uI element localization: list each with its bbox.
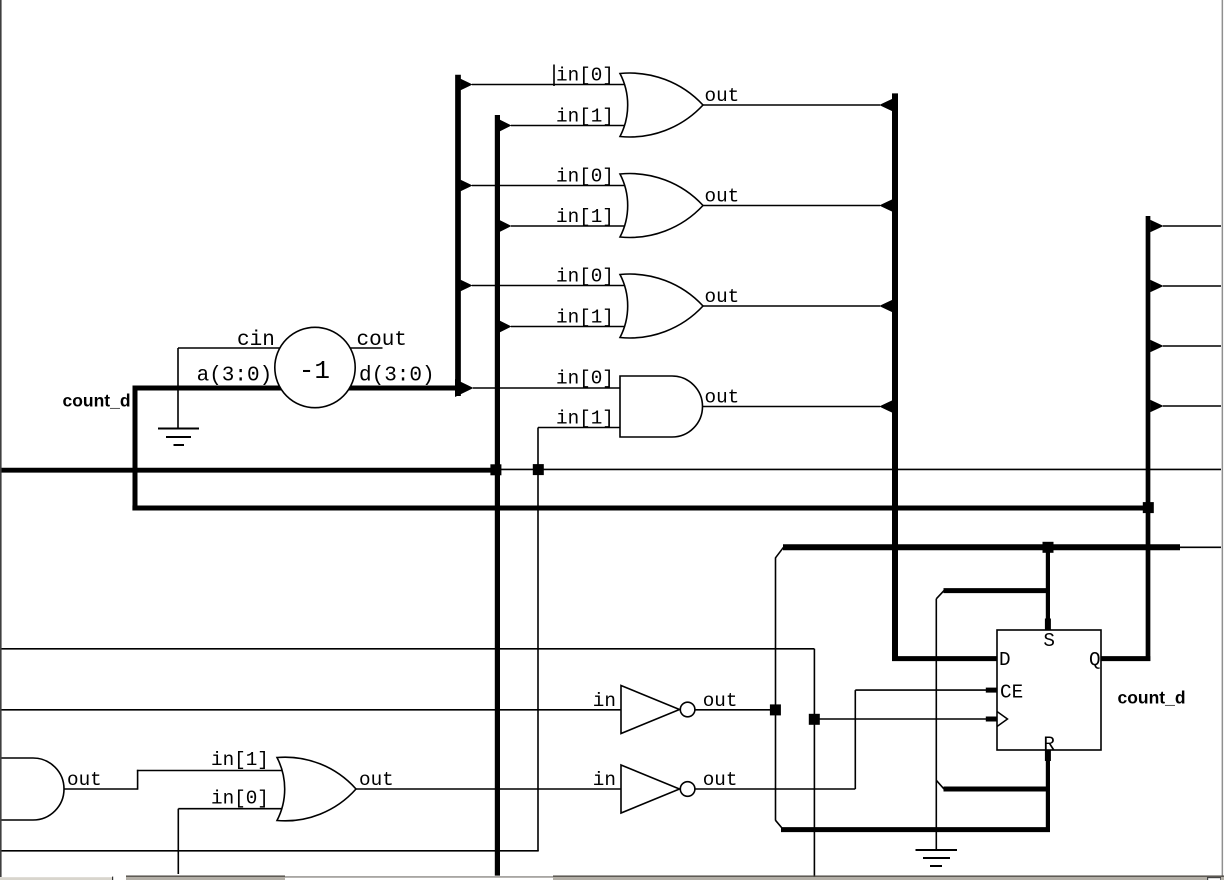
svg-text:cout: cout: [357, 329, 407, 352]
svg-text:out: out: [705, 186, 740, 208]
svg-text:count_d: count_d: [63, 391, 131, 411]
svg-text:a(3:0): a(3:0): [197, 365, 273, 388]
svg-text:cin: cin: [237, 329, 275, 352]
svg-text:S: S: [1043, 630, 1055, 652]
svg-text:in[0]: in[0]: [211, 788, 269, 810]
svg-text:count_d: count_d: [1118, 688, 1186, 708]
svg-text:in[1]: in[1]: [556, 408, 614, 430]
svg-text:d(3:0): d(3:0): [359, 365, 435, 388]
svg-text:in[0]: in[0]: [556, 266, 614, 288]
svg-text:out: out: [359, 769, 394, 791]
svg-text:in[1]: in[1]: [556, 307, 614, 329]
svg-text:in[0]: in[0]: [556, 368, 614, 390]
svg-text:D: D: [999, 649, 1011, 671]
svg-text:in: in: [593, 690, 616, 712]
svg-text:in[0]: in[0]: [556, 65, 614, 87]
svg-text:out: out: [705, 286, 740, 308]
svg-text:out: out: [705, 85, 740, 107]
svg-text:out: out: [705, 387, 740, 409]
svg-text:out: out: [703, 769, 738, 791]
svg-text:in[0]: in[0]: [556, 166, 614, 188]
svg-text:in[1]: in[1]: [211, 749, 269, 771]
svg-text:in[1]: in[1]: [556, 106, 614, 128]
svg-text:Q: Q: [1089, 649, 1101, 671]
svg-text:in[1]: in[1]: [556, 206, 614, 228]
svg-text:out: out: [703, 690, 738, 712]
svg-text:R: R: [1043, 734, 1055, 756]
svg-text:-1: -1: [299, 356, 330, 386]
svg-text:out: out: [67, 769, 102, 791]
svg-text:CE: CE: [1000, 682, 1023, 704]
svg-text:in: in: [593, 769, 616, 791]
